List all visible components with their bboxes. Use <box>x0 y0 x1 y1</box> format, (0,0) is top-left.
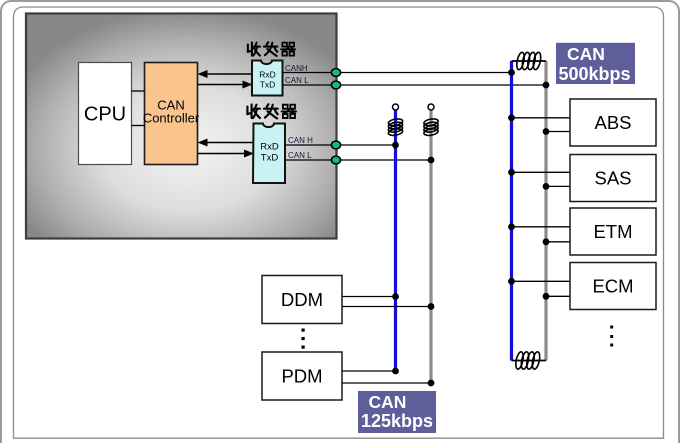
node DDM <box>262 276 342 324</box>
junction dot ETM L <box>543 238 550 245</box>
node SAS <box>508 155 656 202</box>
wire RxD2 with left arrowhead <box>198 139 254 147</box>
svg-text:SAS: SAS <box>594 168 631 189</box>
wire TxD2 with right arrowhead <box>198 150 255 158</box>
junction dot CANH1/bus <box>508 69 515 76</box>
svg-text:RxD: RxD <box>259 70 276 80</box>
svg-text:TxD: TxD <box>260 80 276 90</box>
junction dot CANL2/bus <box>428 157 435 164</box>
svg-text:CAN: CAN <box>369 392 407 412</box>
ellipsis more nodes 500k <box>610 326 613 347</box>
connector dot CANL1 <box>331 81 340 89</box>
svg-text:CAN: CAN <box>567 44 605 64</box>
stub terminal circle H <box>393 104 399 110</box>
node PDM <box>262 352 342 400</box>
ECU block (gray gradient box) <box>26 14 337 239</box>
wire bottom termination link <box>512 360 547 362</box>
label transceiver 1 (收发器) <box>248 42 295 56</box>
junction dot SAS L <box>543 183 550 190</box>
box SAS <box>570 155 656 202</box>
wire DDM H <box>342 296 396 298</box>
wire CANL2 to 125k bus <box>285 159 431 161</box>
transceiver 2 <box>253 124 285 184</box>
svg-text:Controller: Controller <box>143 111 200 126</box>
wire ABS H <box>512 117 571 119</box>
wire PDM L <box>342 382 431 384</box>
bus CAN-H 500k (blue) <box>510 61 513 361</box>
junction dot ABS L <box>543 128 550 135</box>
label transceiver 2 (收发器) <box>247 104 296 118</box>
termination resistor top (coil) <box>515 52 542 71</box>
junction dot DDM L <box>428 303 435 310</box>
box ABS <box>570 99 656 146</box>
junction dot PDM L <box>428 380 435 387</box>
svg-text:TxD: TxD <box>261 153 279 164</box>
wire ECM L <box>546 295 570 297</box>
node ETM <box>508 208 656 255</box>
svg-text:CPU: CPU <box>84 104 126 126</box>
wire CPU-controller upper <box>132 90 145 92</box>
svg-text:500kbps: 500kbps <box>558 64 630 84</box>
wire CPU-controller lower <box>132 125 145 127</box>
junction dot CANH2/bus <box>392 142 399 149</box>
connector dot CANH2 <box>331 141 340 149</box>
svg-text:RxD: RxD <box>260 142 279 153</box>
junction dot ETM H <box>508 223 515 230</box>
wire CANL1 to 500k bus <box>283 84 547 86</box>
wire ECM H <box>512 280 571 282</box>
wire SAS L <box>546 185 570 187</box>
wire DDM L <box>342 306 431 308</box>
svg-text:ECM: ECM <box>592 276 633 297</box>
CAN controller <box>143 63 200 165</box>
junction dot ECM L <box>543 293 550 300</box>
junction dot PDM H <box>392 368 399 375</box>
termination coil L 125k <box>423 118 438 137</box>
wire RxD1 with left arrowhead <box>198 70 253 78</box>
wire PDM H <box>342 370 396 372</box>
ellipsis more nodes 125k <box>302 329 305 349</box>
svg-text:CAN H: CAN H <box>288 136 313 145</box>
node ABS <box>508 99 656 146</box>
junction dot SAS H <box>508 169 515 176</box>
wire CANH2 to 125k bus <box>285 144 396 146</box>
wire ETM L <box>546 241 570 243</box>
wire top termination link <box>512 60 547 62</box>
bus CAN-L 500k (gray) <box>544 61 547 361</box>
junction dot ECM H <box>508 278 515 285</box>
junction dot ABS H <box>508 114 515 121</box>
junction dot DDM H <box>392 293 399 300</box>
svg-text:ABS: ABS <box>594 112 631 133</box>
svg-text:CAN L: CAN L <box>288 151 312 160</box>
svg-text:CAN L: CAN L <box>285 76 309 85</box>
node ECM <box>508 263 656 310</box>
termination coil H 125k <box>388 118 403 137</box>
wire ETM H <box>512 226 571 228</box>
connector dot CANH1 <box>331 69 340 77</box>
transceiver 1 <box>252 61 283 96</box>
svg-text:PDM: PDM <box>281 366 322 387</box>
label CAN 500kbps <box>556 43 635 84</box>
connector dot CANL2 <box>331 156 340 164</box>
termination resistor bottom (coil) <box>514 351 541 370</box>
wire ABS L <box>546 131 570 133</box>
box ECM <box>570 263 656 310</box>
svg-text:125kbps: 125kbps <box>361 411 433 431</box>
svg-text:CANH: CANH <box>285 64 308 73</box>
CPU box <box>79 63 132 165</box>
svg-text:DDM: DDM <box>281 289 323 310</box>
wire TxD1 with right arrowhead <box>198 81 253 89</box>
junction dot CANL1/bus <box>543 82 550 89</box>
bus CAN-H 125k (blue) <box>394 110 397 371</box>
wire CANH1 to 500k bus <box>283 72 512 74</box>
bus CAN-L 125k (gray) <box>429 110 432 383</box>
box ETM <box>570 208 656 255</box>
wire SAS H <box>512 171 571 173</box>
svg-text:ETM: ETM <box>593 221 632 242</box>
stub terminal circle L <box>428 104 434 110</box>
label CAN 125kbps <box>358 391 436 433</box>
